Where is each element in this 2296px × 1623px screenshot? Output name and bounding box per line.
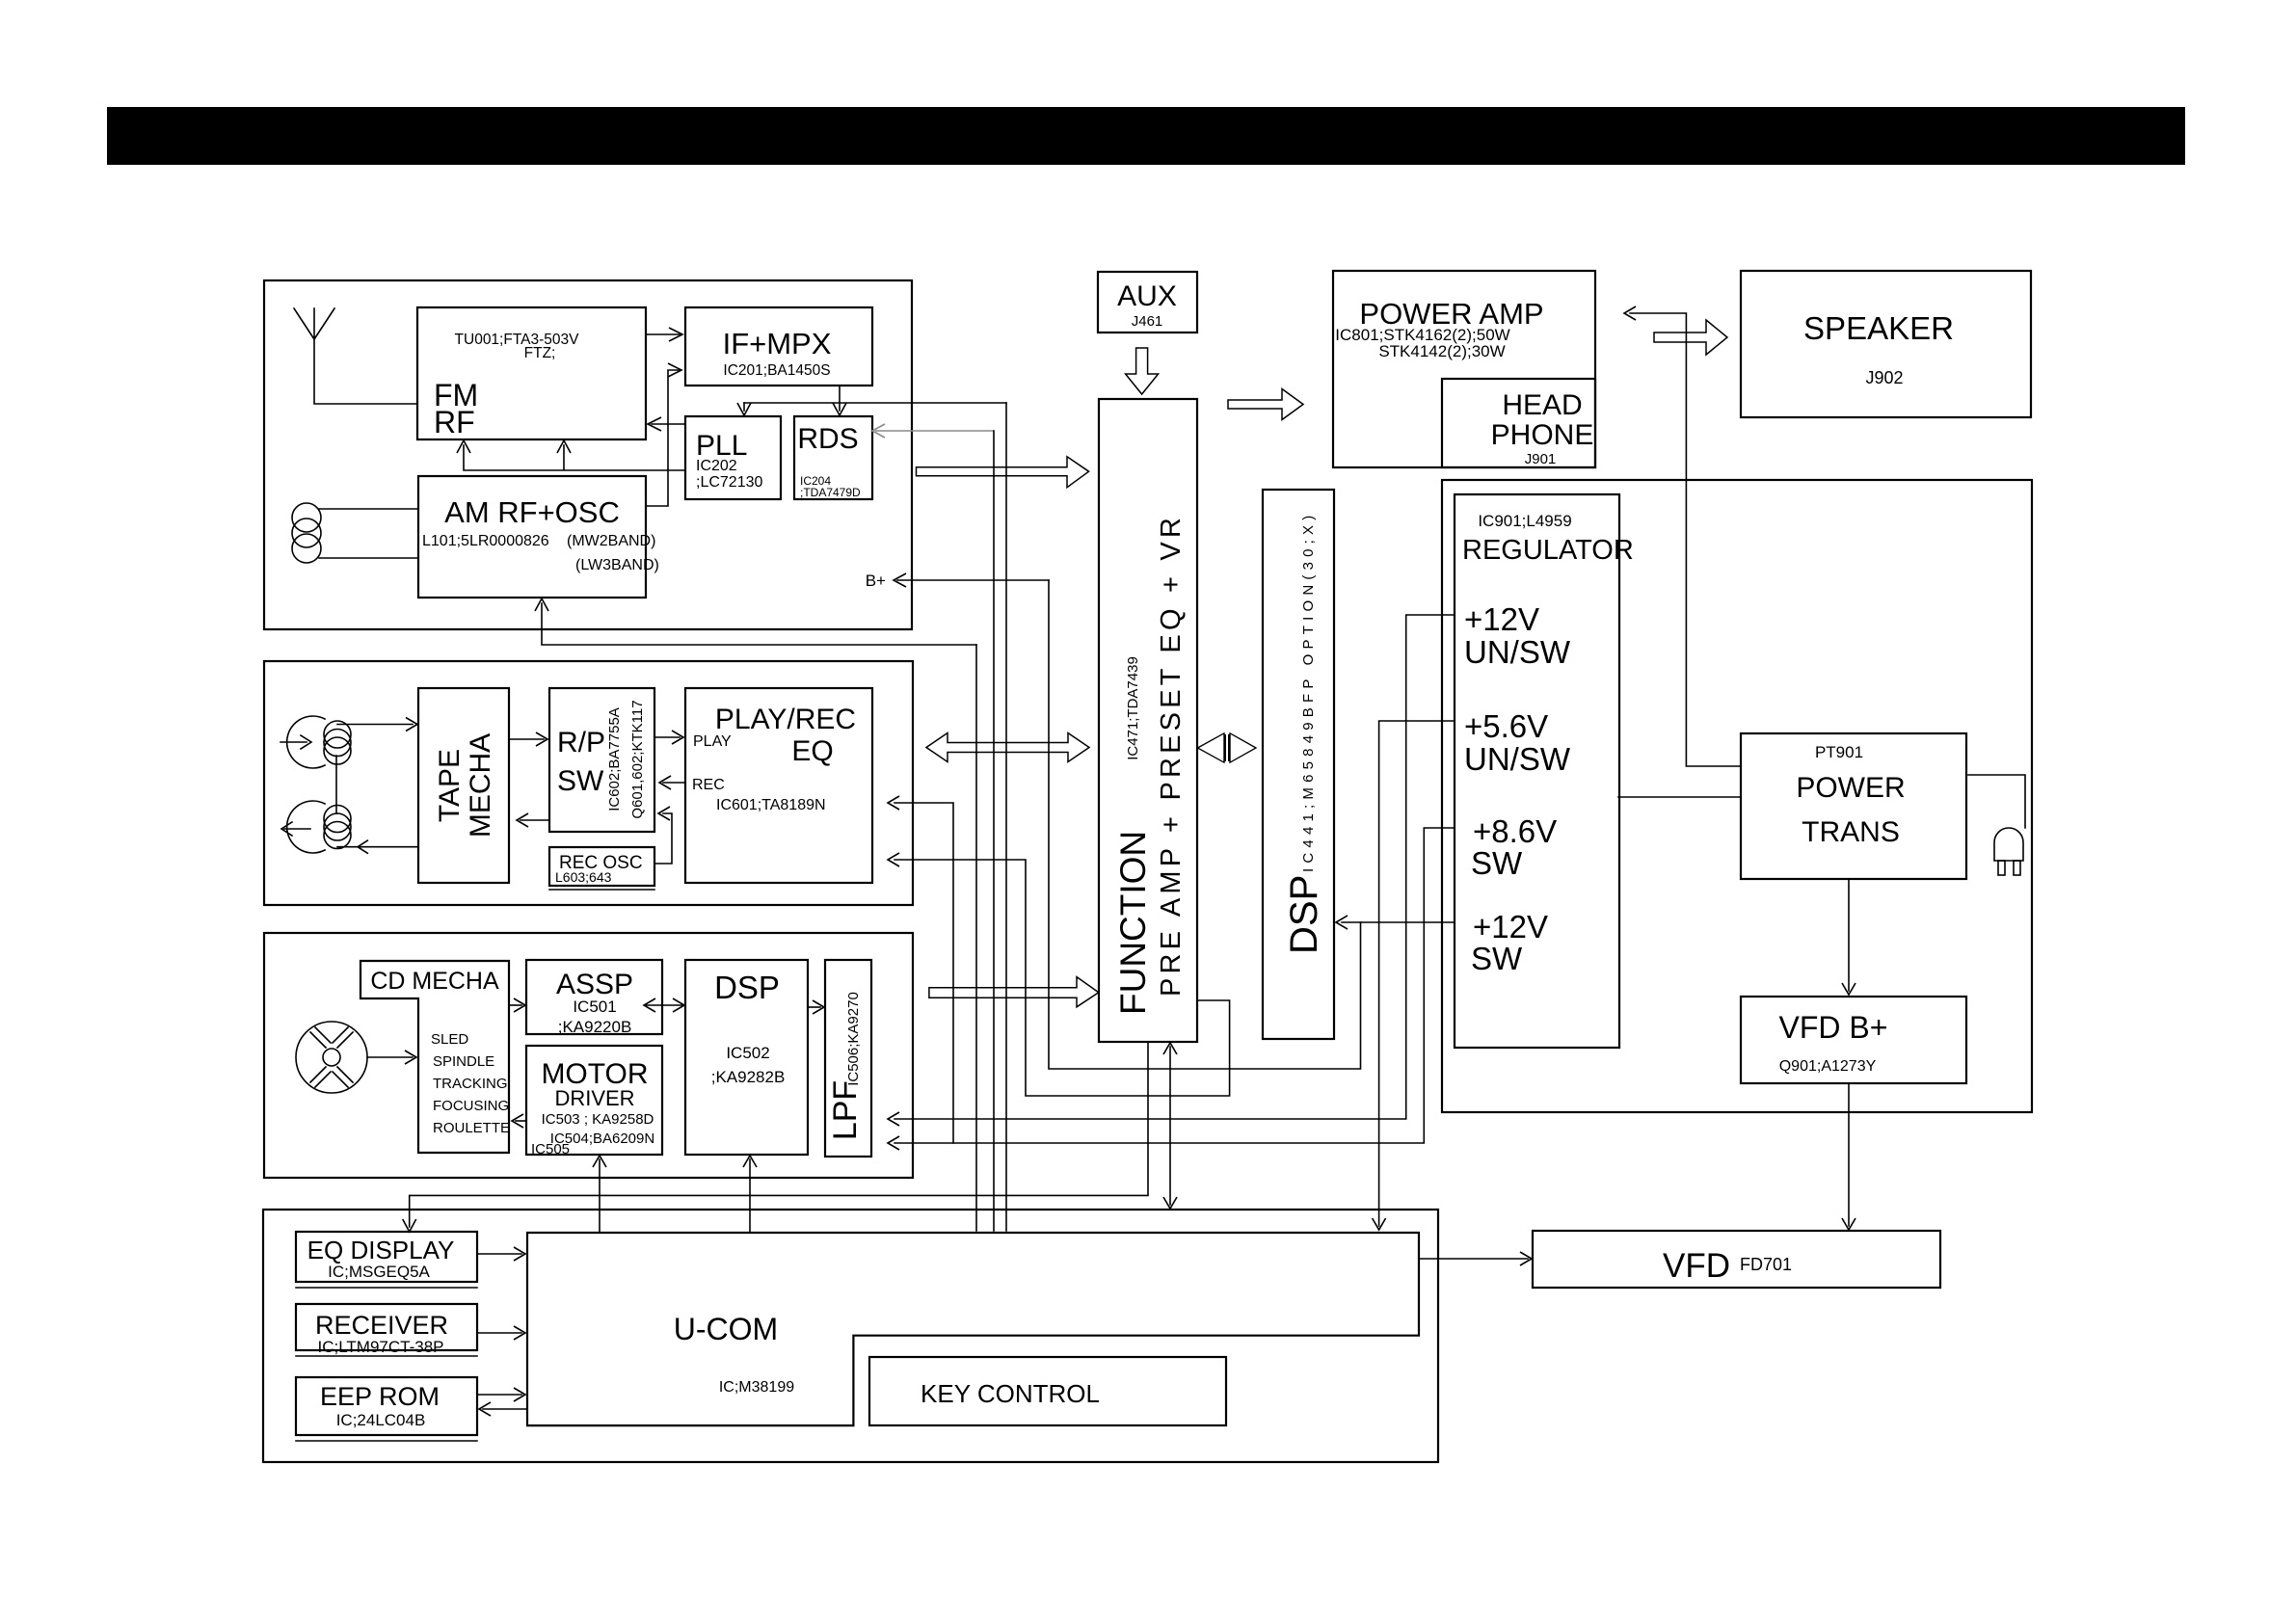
CD MECHA block xyxy=(360,961,510,1153)
wire RECEIVER to U-COM xyxy=(478,1332,521,1334)
svg-text:B+: B+ xyxy=(866,572,886,590)
ASSP IC501 block xyxy=(526,960,662,1036)
svg-text:AM RF+OSC: AM RF+OSC xyxy=(444,495,620,529)
wire EEP ROM to U-COM xyxy=(478,1394,521,1396)
svg-text:PHONE: PHONE xyxy=(1491,419,1594,451)
svg-text:FTZ;: FTZ; xyxy=(524,345,556,361)
svg-text:;LC72130: ;LC72130 xyxy=(696,474,762,491)
svg-text:IC202: IC202 xyxy=(696,458,737,474)
svg-text:FUNCTION: FUNCTION xyxy=(1113,831,1153,1015)
AC plug xyxy=(1968,775,2025,875)
wire DSP to LPF xyxy=(808,1006,820,1008)
bottom section box xyxy=(263,1210,1438,1462)
wire U-COM to MOTOR DRIVER xyxy=(599,1159,601,1233)
svg-text:CD MECHA: CD MECHA xyxy=(370,968,499,995)
wire VFD B+ to VFD xyxy=(1848,1083,1850,1226)
VFD block FD701 xyxy=(1533,1231,1940,1288)
wire MOTOR DRIVER to CD MECHA xyxy=(516,1120,526,1122)
svg-text:;KA9220B: ;KA9220B xyxy=(558,1018,632,1036)
LPF IC506 block xyxy=(825,960,871,1157)
svg-text:RF: RF xyxy=(434,405,475,439)
svg-text:SW: SW xyxy=(1471,941,1523,976)
svg-text:TRANS: TRANS xyxy=(1802,816,1900,848)
power section box xyxy=(1442,480,2032,1112)
TAPE MECHA block xyxy=(418,688,509,883)
wire AM RF+OSC supply from bus xyxy=(542,603,976,645)
PLAY/REC EQ block xyxy=(685,688,872,883)
svg-text:IF+MPX: IF+MPX xyxy=(723,327,832,360)
svg-text:EQ DISPLAY: EQ DISPLAY xyxy=(307,1236,455,1264)
svg-text:L101;5LR0000826: L101;5LR0000826 xyxy=(422,533,549,549)
wire pickup to CD MECHA xyxy=(367,1056,413,1058)
svg-text:J461: J461 xyxy=(1132,313,1163,330)
tuner section box xyxy=(264,280,912,629)
wire U-COM to EEP ROM xyxy=(483,1408,527,1410)
svg-text:TU001;FTA3-503V: TU001;FTA3-503V xyxy=(455,332,580,348)
svg-text:IC;24LC04B: IC;24LC04B xyxy=(336,1411,426,1429)
bus wire from IF+MPX xyxy=(1005,403,1007,1231)
SPEAKER block J902 xyxy=(1741,271,2031,417)
wire U-COM to CD DSP xyxy=(749,1159,751,1233)
svg-text:ASSP: ASSP xyxy=(556,969,633,1000)
VFD B+ block Q901 xyxy=(1741,997,1966,1083)
wire POWER TRANS to VFD B+ xyxy=(1848,879,1850,991)
svg-text:IC502: IC502 xyxy=(726,1044,769,1062)
wire PLL to FM RF xyxy=(652,423,685,425)
svg-text:EEP ROM: EEP ROM xyxy=(320,1382,440,1411)
svg-text:;TDA7479D: ;TDA7479D xyxy=(800,486,861,499)
svg-text:REC: REC xyxy=(692,777,725,793)
wire POWER TRANS to POWER AMP xyxy=(1630,313,1741,766)
hollow arrow CD to FUNCTION xyxy=(929,977,1099,1007)
tuner block TU001 FM RF xyxy=(417,307,646,439)
svg-text:IC;LTM97CT-38P: IC;LTM97CT-38P xyxy=(317,1338,443,1356)
PT901 POWER TRANS block xyxy=(1741,733,1966,879)
KEY CONTROL block xyxy=(869,1357,1226,1425)
svg-text:KEY CONTROL: KEY CONTROL xyxy=(921,1379,1100,1408)
FM antenna xyxy=(294,308,417,404)
R/P SW block xyxy=(549,688,654,832)
wire RDS data (gray) xyxy=(875,430,994,432)
svg-text:REGULATOR: REGULATOR xyxy=(1462,535,1634,566)
svg-text:SW: SW xyxy=(1471,845,1523,881)
svg-text:IC;MSGEQ5A: IC;MSGEQ5A xyxy=(328,1263,430,1281)
svg-text:+12V: +12V xyxy=(1464,601,1539,637)
svg-text:(MW2BAND): (MW2BAND) xyxy=(567,533,655,549)
svg-text:IC503 ; KA9258D: IC503 ; KA9258D xyxy=(542,1111,654,1128)
svg-text:IC;M38199: IC;M38199 xyxy=(719,1379,794,1396)
svg-text:SW: SW xyxy=(557,765,604,797)
svg-text:RECEIVER: RECEIVER xyxy=(315,1311,448,1340)
wire TAPE MECHA to reel xyxy=(337,846,418,848)
svg-text:UN/SW: UN/SW xyxy=(1464,634,1571,670)
arrow into PLL top xyxy=(743,403,745,411)
wire +8.6V SW rail to LPF xyxy=(894,828,1455,1143)
svg-text:Q601,602;KTK117: Q601,602;KTK117 xyxy=(629,700,646,818)
wire tape EQ supply xyxy=(894,803,953,1143)
wire ASSP to DSP (both ways) xyxy=(646,1004,682,1006)
svg-text:PLAY/REC: PLAY/REC xyxy=(715,704,856,735)
MOTOR DRIVER block xyxy=(526,1046,662,1157)
IC204 RDS block xyxy=(794,416,872,499)
svg-text:DSP: DSP xyxy=(1283,875,1325,954)
tape section box xyxy=(264,661,913,905)
HEAD PHONE block J901 xyxy=(1442,379,1595,467)
wire REC to R/P SW xyxy=(663,782,685,784)
FUNCTION PRE AMP block IC471 xyxy=(1099,399,1197,1042)
svg-text:+12V: +12V xyxy=(1473,909,1548,945)
CD pickup xyxy=(296,1022,367,1093)
wire FUNCTION to EQ DISPLAY xyxy=(410,1042,1148,1227)
svg-text:U-COM: U-COM xyxy=(674,1312,778,1346)
wire IF+MPX bus to FUNCTION riser xyxy=(744,402,1006,404)
hollow arrow AUX to FUNCTION xyxy=(1126,348,1159,394)
svg-text:UN/SW: UN/SW xyxy=(1464,741,1571,777)
svg-text:VFD B+: VFD B+ xyxy=(1779,1010,1888,1045)
IC201 IF+MPX block xyxy=(685,307,872,386)
wire FM RF to IF+MPX xyxy=(646,333,680,335)
wire +5.6V UN/SW rail to U-COM xyxy=(1379,721,1455,1226)
svg-text:J902: J902 xyxy=(1865,368,1903,387)
svg-text:EQ: EQ xyxy=(791,735,833,767)
IC202 PLL block xyxy=(685,416,781,499)
EQ DISPLAY block xyxy=(296,1232,477,1288)
svg-text:+5.6V: +5.6V xyxy=(1464,708,1548,744)
svg-text:ROULETTE: ROULETTE xyxy=(433,1120,510,1136)
wire REC OSC to R/P SW xyxy=(654,813,672,864)
EEP ROM block xyxy=(296,1377,477,1441)
tape reel top xyxy=(280,716,351,768)
svg-text:SLED: SLED xyxy=(431,1031,468,1048)
svg-text:IC501: IC501 xyxy=(573,998,616,1016)
wire +12V SW to DSP xyxy=(1342,921,1455,923)
DSP column block IC441 xyxy=(1263,490,1334,1039)
wire AM RF+OSC to IF+MPX xyxy=(646,370,679,506)
svg-text:+8.6V: +8.6V xyxy=(1473,813,1557,849)
hollow arrow tape to FUNCTION (double) xyxy=(926,733,1089,762)
svg-text:DRIVER: DRIVER xyxy=(554,1086,634,1110)
svg-text:L603;643: L603;643 xyxy=(555,869,612,885)
svg-text:IC901;L4959: IC901;L4959 xyxy=(1478,512,1571,530)
svg-text:IC602;BA7755A: IC602;BA7755A xyxy=(606,707,623,811)
wire TAPE MECHA to R/P SW xyxy=(509,738,544,740)
svg-text:DSP: DSP xyxy=(714,970,780,1005)
wire REGULATOR to POWER TRANS xyxy=(1618,796,1741,798)
cd section box xyxy=(264,933,913,1178)
wire R/P SW to TAPE MECHA xyxy=(521,819,549,821)
svg-text:(LW3BAND): (LW3BAND) xyxy=(575,557,659,573)
svg-text:STK4142(2);30W: STK4142(2);30W xyxy=(1378,342,1505,360)
title bar xyxy=(107,107,2185,165)
svg-text:J901: J901 xyxy=(1525,451,1557,467)
svg-text:HEAD: HEAD xyxy=(1502,389,1582,421)
svg-text:IC441;M65849BFP OPTION(30;X): IC441;M65849BFP OPTION(30;X) xyxy=(1300,511,1317,872)
svg-text:PT901: PT901 xyxy=(1815,743,1863,761)
DSP IC502 block xyxy=(685,960,808,1155)
REGULATOR block IC901 xyxy=(1455,494,1634,1048)
svg-text:FOCUSING: FOCUSING xyxy=(433,1098,509,1114)
svg-text:MECHA: MECHA xyxy=(465,733,496,838)
wire IF+MPX to RDS xyxy=(839,386,841,411)
wire B+ into tuner xyxy=(897,579,1049,581)
svg-text:RDS: RDS xyxy=(797,423,858,455)
wire FUNCTION to U-COM (double arrow) xyxy=(1169,1047,1171,1205)
wire CD MECHA to ASSP xyxy=(509,1004,521,1006)
wire tape to FUNCTION return xyxy=(894,860,1230,1096)
AM loop antenna coil xyxy=(292,503,418,563)
svg-text:SPEAKER: SPEAKER xyxy=(1803,310,1954,346)
U-COM block IC M38199 xyxy=(527,1233,1419,1425)
svg-text:POWER: POWER xyxy=(1796,772,1905,804)
wire PLL tuning voltage to FM RF xyxy=(464,445,685,470)
svg-text:TAPE: TAPE xyxy=(434,749,466,822)
svg-text:TRACKING: TRACKING xyxy=(433,1076,508,1092)
wire R/P SW to PLAY xyxy=(654,736,680,738)
wire reel to TAPE MECHA xyxy=(337,724,413,726)
svg-text:R/P: R/P xyxy=(557,727,605,758)
tape reel bottom xyxy=(281,756,351,853)
POWER AMP block IC801 xyxy=(1333,271,1595,467)
svg-text:IC505: IC505 xyxy=(531,1141,570,1157)
B+ bus wire xyxy=(1049,580,1361,1069)
svg-text:PLAY: PLAY xyxy=(693,733,732,750)
wire EQ DISPLAY to U-COM xyxy=(478,1253,521,1255)
svg-text:VFD: VFD xyxy=(1663,1247,1730,1285)
svg-text:IC601;TA8189N: IC601;TA8189N xyxy=(716,797,826,813)
svg-text:IC201;BA1450S: IC201;BA1450S xyxy=(723,362,830,379)
svg-text:AUX: AUX xyxy=(1117,280,1177,312)
hollow arrow POWER AMP to SPEAKER xyxy=(1654,320,1727,355)
diamond arrow FUNCTION to DSP xyxy=(1198,733,1225,762)
AUX J461 block xyxy=(1098,272,1197,333)
svg-text:IC471;TDA7439: IC471;TDA7439 xyxy=(1125,656,1141,760)
svg-text:SPINDLE: SPINDLE xyxy=(433,1053,494,1070)
hollow arrow FUNCTION to POWER AMP xyxy=(1228,389,1303,420)
svg-text:FD701: FD701 xyxy=(1740,1255,1792,1274)
hollow arrow tuner to FUNCTION xyxy=(917,457,1089,488)
svg-text:IC506;KA9270: IC506;KA9270 xyxy=(845,992,862,1086)
svg-text:Q901;A1273Y: Q901;A1273Y xyxy=(1779,1058,1877,1075)
L101 AM RF+OSC block xyxy=(418,476,659,598)
bus wire from AM section xyxy=(975,645,977,1231)
svg-text:;KA9282B: ;KA9282B xyxy=(711,1068,786,1086)
wire +12V UN/SW rail to LPF xyxy=(894,615,1455,1119)
REC OSC block xyxy=(549,847,654,890)
svg-text:PRE AMP + PRESET EQ + VR: PRE AMP + PRESET EQ + VR xyxy=(1156,514,1187,997)
RECEIVER block xyxy=(296,1304,477,1356)
svg-text:LPF: LPF xyxy=(827,1080,864,1140)
bus wire from RDS xyxy=(993,431,995,1231)
wire U-COM to VFD xyxy=(1419,1258,1528,1260)
